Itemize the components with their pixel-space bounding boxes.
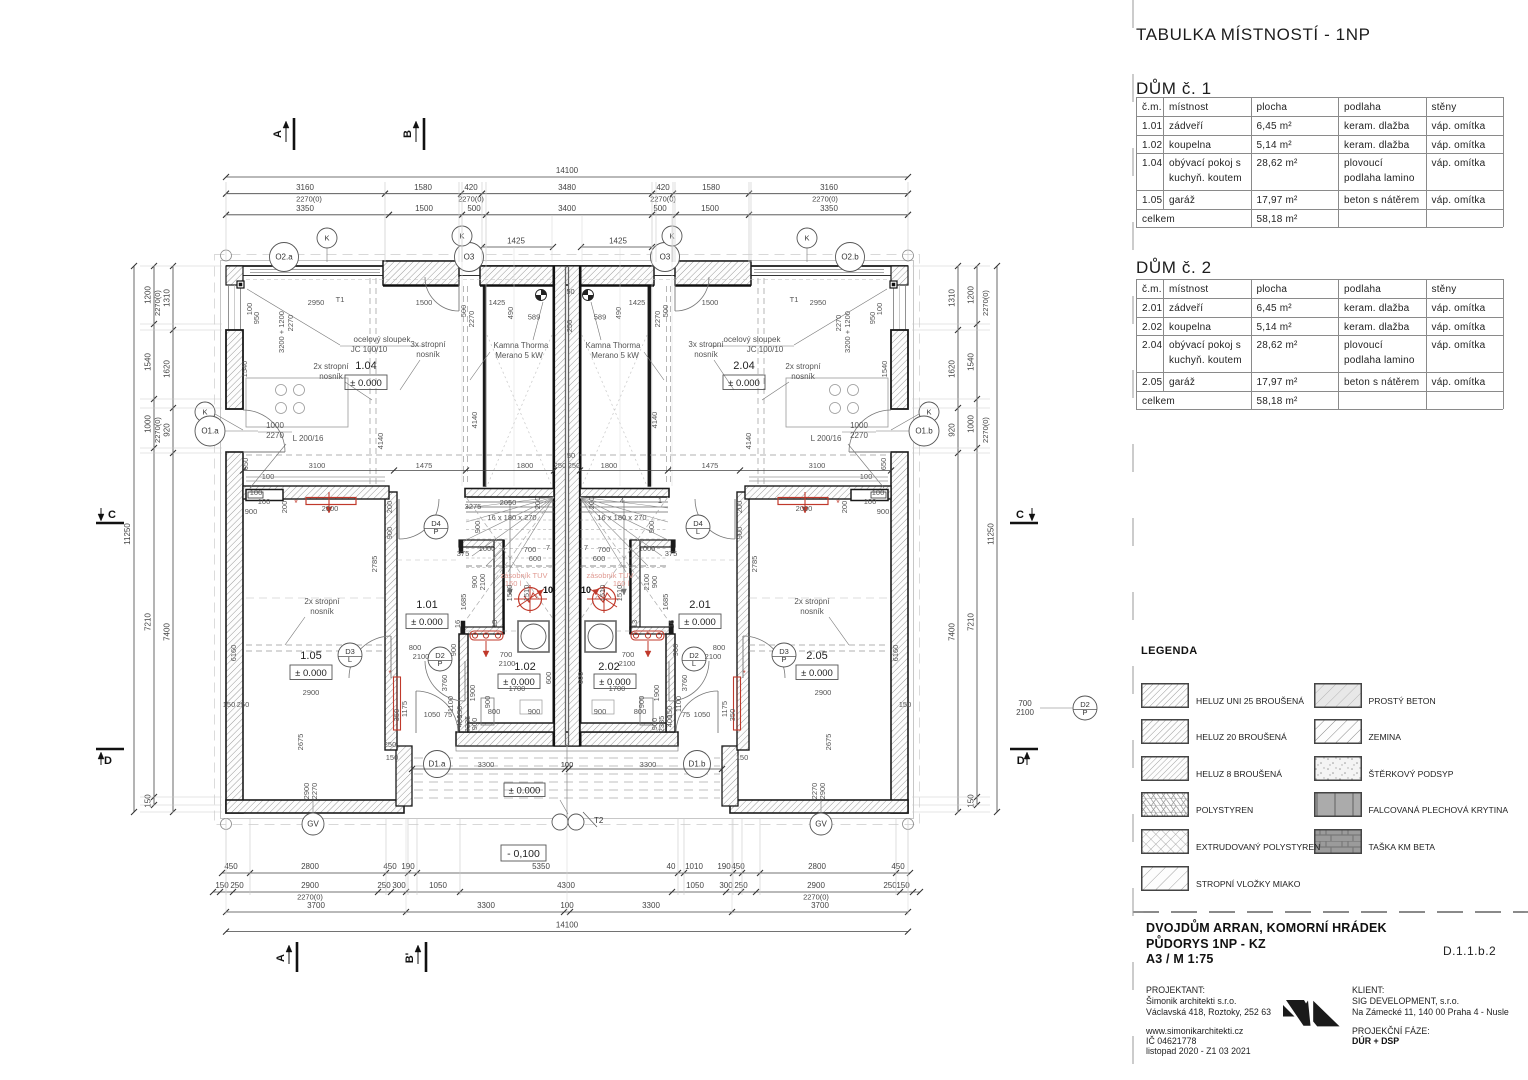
svg-text:1: 1 [658, 496, 662, 505]
door O1.b side entrance right [849, 410, 891, 452]
svg-text:2950: 2950 [810, 298, 827, 307]
svg-text:200: 200 [840, 501, 849, 514]
door D2 left [425, 661, 465, 701]
svg-text:600: 600 [529, 554, 542, 563]
room label 1.01 [406, 599, 448, 629]
svg-text:300: 300 [719, 881, 733, 890]
svg-text:920: 920 [948, 423, 957, 437]
dimension chain left inner [163, 263, 177, 815]
svg-text:420: 420 [464, 183, 478, 192]
svg-text:2.01: 2.01 [689, 599, 710, 611]
exterior contour line around house [215, 255, 920, 825]
label 3x stropni nosnik right [688, 340, 734, 390]
door D3 garage right [743, 636, 785, 678]
svg-text:2270(0): 2270(0) [650, 195, 676, 204]
svg-text:± 0.000: ± 0.000 [684, 617, 716, 628]
svg-text:3160: 3160 [296, 183, 314, 192]
svg-text:589: 589 [528, 313, 541, 322]
svg-text:250: 250 [384, 740, 397, 749]
svg-text:16 x 180 x 270: 16 x 180 x 270 [597, 513, 646, 522]
svg-text:450: 450 [731, 862, 745, 871]
svg-text:2270(0): 2270(0) [812, 195, 838, 204]
svg-text:900: 900 [473, 521, 482, 534]
label kamna thorma right [586, 302, 665, 380]
section marker A bottom [275, 942, 297, 972]
svg-text:2900: 2900 [807, 881, 825, 890]
svg-text:4140: 4140 [744, 433, 753, 450]
kitchen counter left unit [246, 378, 348, 427]
svg-text:1510: 1510 [615, 585, 624, 602]
svg-text:7400: 7400 [163, 623, 172, 641]
svg-text:2800: 2800 [808, 862, 826, 871]
svg-text:2270: 2270 [266, 431, 284, 440]
svg-text:1580: 1580 [702, 183, 720, 192]
label 1000 2270 left [258, 421, 292, 440]
svg-text:Merano 5 kW: Merano 5 kW [495, 351, 543, 360]
legend swatch PROSTÝ BETON [1314, 683, 1362, 708]
svg-text:150: 150 [899, 700, 912, 709]
svg-text:1500: 1500 [415, 204, 433, 213]
svg-text:1800: 1800 [517, 461, 534, 470]
svg-text:500: 500 [467, 204, 481, 213]
svg-text:1700: 1700 [609, 684, 626, 693]
svg-text:- 0,100: - 0,100 [507, 848, 540, 860]
red fitting bathroom right [631, 631, 664, 657]
svg-text:2675: 2675 [296, 734, 305, 751]
ceiling beam dashed lines living rooms [246, 278, 888, 486]
svg-text:1900: 1900 [468, 685, 477, 702]
gas meter bubble GV left [302, 800, 324, 835]
svg-text:7400: 7400 [948, 623, 957, 641]
svg-text:D1.a: D1.a [429, 760, 446, 769]
legend swatch STROPNÍ VLOŽKY MIAKO [1141, 866, 1189, 891]
svg-text:1540: 1540 [144, 353, 153, 371]
door bubble D2 left [428, 647, 452, 671]
svg-text:250: 250 [568, 461, 581, 470]
svg-text:1475: 1475 [702, 461, 719, 470]
window bubble O1.b [876, 416, 939, 446]
svg-text:3300: 3300 [478, 760, 495, 769]
svg-text:490: 490 [506, 307, 515, 320]
svg-text:JC 100/10: JC 100/10 [351, 345, 388, 354]
wall chimney bump-out left [383, 261, 459, 285]
architect logo [1281, 998, 1343, 1030]
svg-text:14100: 14100 [556, 921, 579, 930]
legend heading [1141, 645, 1198, 657]
dimension chain bottom row 3 [223, 901, 911, 915]
svg-text:4: 4 [620, 496, 624, 505]
svg-text:3300: 3300 [477, 901, 495, 910]
klempir bubble K top-mid-left [452, 226, 472, 262]
svg-text:16: 16 [453, 620, 462, 628]
svg-text:2100: 2100 [642, 574, 651, 591]
door D2 right [669, 661, 709, 701]
svg-text:± 0.000: ± 0.000 [411, 617, 443, 628]
svg-text:2675: 2675 [824, 734, 833, 751]
wall top centre thick segment [480, 266, 654, 285]
dimension texts interior right unit [561, 295, 912, 799]
svg-text:13: 13 [630, 620, 639, 628]
wall garage inner left [385, 492, 397, 750]
svg-text:2270: 2270 [286, 315, 295, 332]
svg-text:490: 490 [614, 307, 623, 320]
svg-text:950: 950 [252, 312, 261, 325]
svg-text:2x stropní: 2x stropní [794, 597, 830, 606]
svg-text:600: 600 [576, 672, 585, 685]
svg-text:3275: 3275 [465, 502, 482, 511]
svg-text:900: 900 [735, 527, 744, 540]
svg-text:Merano 5 kW: Merano 5 kW [591, 351, 639, 360]
svg-text:1000: 1000 [479, 544, 496, 553]
svg-text:350: 350 [728, 709, 737, 722]
svg-text:1310: 1310 [948, 289, 957, 307]
sheet fold dashed border left of panel [1132, 0, 1134, 1080]
sheet fold dashed separator above title block [1133, 911, 1528, 913]
svg-text:7: 7 [546, 543, 550, 552]
svg-text:1700: 1700 [509, 684, 526, 693]
gas meter bubble GV right [810, 800, 832, 835]
svg-text:2785: 2785 [370, 556, 379, 573]
svg-text:3700: 3700 [811, 901, 829, 910]
svg-text:2270: 2270 [834, 315, 843, 332]
stairwell void dashed diagonals left [487, 335, 552, 486]
hall dashed lines [397, 560, 737, 631]
washing machine left unit [518, 621, 549, 652]
svg-text:2100: 2100 [478, 574, 487, 591]
window bubble O2.a [270, 243, 299, 272]
svg-text:nosník: nosník [800, 607, 825, 616]
svg-text:375: 375 [665, 549, 678, 558]
svg-text:2.02: 2.02 [598, 661, 619, 673]
table title TABULKA MISTNOSTI [1136, 25, 1371, 45]
svg-text:1050: 1050 [429, 881, 447, 890]
svg-text:200: 200 [587, 497, 596, 510]
svg-text:1000: 1000 [850, 421, 868, 430]
svg-text:10: 10 [581, 585, 591, 595]
klempir bubble K left wall [195, 402, 243, 430]
svg-text:3300: 3300 [640, 760, 657, 769]
wall outer right upper window zone [894, 285, 906, 330]
svg-text:1000: 1000 [266, 421, 284, 430]
svg-text:2100: 2100 [413, 652, 430, 661]
svg-text:1000: 1000 [144, 415, 153, 433]
staircase right unit [580, 497, 668, 620]
svg-text:2270(0): 2270(0) [296, 195, 322, 204]
door bubble D4 right [686, 515, 710, 539]
svg-text:900: 900 [650, 576, 659, 589]
room label 2.01 [679, 599, 721, 629]
klempir bubble K top-mid-right [662, 226, 682, 262]
wall shaft niche right unit [630, 540, 675, 634]
dimension line interior upper left unit [240, 468, 557, 474]
room label 1.04 [345, 360, 387, 390]
svg-text:± 0.000: ± 0.000 [509, 786, 541, 797]
svg-text:1620: 1620 [948, 360, 957, 378]
svg-text:2x stropní: 2x stropní [313, 362, 349, 371]
door T1 left [425, 277, 459, 311]
svg-text:B: B [402, 130, 414, 138]
svg-text:250: 250 [734, 881, 748, 890]
section marker B top [402, 118, 424, 150]
legend swatch HELUZ UNI 25 BROUŠENÁ [1141, 683, 1189, 708]
svg-text:150: 150 [223, 700, 236, 709]
wall chimney bump-out right [675, 261, 751, 285]
stove symbol left unit [536, 290, 547, 301]
legend swatch EXTRUDOVANÝ POLYSTYREN [1141, 829, 1189, 854]
svg-text:1500: 1500 [416, 298, 433, 307]
svg-text:4300: 4300 [557, 881, 575, 890]
room label 2.04 [723, 360, 765, 390]
svg-text:1800: 1800 [601, 461, 618, 470]
svg-text:2270(0): 2270(0) [153, 417, 162, 443]
svg-text:GV: GV [307, 820, 319, 829]
steel column symbol top-right [890, 281, 897, 288]
label L 200/16 left [250, 434, 324, 488]
svg-text:2100: 2100 [499, 659, 516, 668]
label 2x stropni nosnik living right [762, 362, 821, 400]
stairwell void dashed diagonals right [582, 335, 647, 486]
svg-text:150: 150 [215, 881, 229, 890]
door bubble D2 far right [1016, 696, 1097, 720]
room table house 1 [1135, 96, 1137, 98]
svg-text:nosník: nosník [319, 372, 344, 381]
lintel lines above mid wall right [749, 477, 888, 481]
svg-text:11250: 11250 [987, 523, 996, 545]
svg-text:JC 100/10: JC 100/10 [747, 345, 784, 354]
svg-text:2270: 2270 [653, 311, 662, 328]
svg-text:O3: O3 [464, 253, 475, 262]
door O1.a side entrance left [243, 410, 285, 452]
svg-text:3760: 3760 [680, 675, 689, 692]
svg-text:2270: 2270 [310, 783, 319, 800]
svg-text:3100: 3100 [309, 461, 326, 470]
svg-text:T2: T2 [594, 816, 604, 825]
wall garage leg left [396, 746, 412, 806]
svg-text:1050: 1050 [424, 710, 441, 719]
room table house 2 [1135, 278, 1137, 280]
red vertical duct right [734, 669, 746, 730]
door D4 left [399, 499, 439, 539]
svg-text:nosník: nosník [791, 372, 816, 381]
svg-text:2270: 2270 [850, 431, 868, 440]
svg-text:1.04: 1.04 [355, 360, 376, 372]
dimension line interior upper right unit [577, 468, 894, 474]
svg-text:100: 100 [860, 472, 873, 481]
svg-text:75: 75 [444, 710, 452, 719]
svg-text:1510: 1510 [505, 585, 514, 602]
svg-text:900: 900 [245, 507, 258, 516]
svg-text:2900: 2900 [818, 783, 827, 800]
svg-text:800: 800 [713, 643, 726, 652]
red water heater right (zasobnik TUV) [581, 571, 633, 613]
window bubble O1.a [195, 416, 258, 446]
room label 2.05 [796, 650, 838, 680]
svg-text:1050: 1050 [694, 710, 711, 719]
svg-text:16 x 180 x 270: 16 x 180 x 270 [487, 513, 536, 522]
svg-text:7210: 7210 [967, 613, 976, 631]
svg-text:1050: 1050 [686, 881, 704, 890]
svg-text:L 200/16: L 200/16 [293, 434, 324, 443]
label 2x stropni nosnik garage right [794, 597, 849, 645]
porch paving dashed lines [414, 746, 720, 818]
wall centre party double [554, 266, 580, 746]
witness lines to top dimension chains [226, 182, 908, 262]
wall pier right (window jamb) [891, 330, 908, 409]
legend swatch HELUZ 20 BROUŠENÁ [1141, 719, 1189, 744]
section marker A top [272, 118, 294, 150]
svg-text:100: 100 [262, 472, 275, 481]
svg-text:700: 700 [598, 545, 611, 554]
svg-text:600: 600 [544, 672, 553, 685]
red garage lintel left [294, 492, 356, 513]
title block project name [1146, 921, 1387, 935]
dimension chain top overall 14100 [223, 166, 911, 180]
door bubble D3 left [338, 643, 362, 667]
svg-text:250: 250 [883, 881, 897, 890]
svg-text:2050: 2050 [500, 498, 517, 507]
door T1 right [675, 277, 709, 311]
projektant block [1146, 985, 1205, 995]
svg-text:2270(0): 2270(0) [153, 290, 162, 316]
svg-text:3350: 3350 [820, 204, 838, 213]
label ocelovy sloupek right [710, 289, 887, 354]
svg-text:500: 500 [653, 204, 667, 213]
dimension chain bottom row 1 [219, 862, 913, 876]
svg-text:900: 900 [650, 718, 659, 731]
axis corner circles [221, 250, 914, 830]
section marker D left [96, 749, 124, 767]
legend swatch FALCOVANÁ PLECHOVÁ KRYTINA [1314, 792, 1362, 817]
svg-text:O3: O3 [660, 253, 671, 262]
svg-text:1000: 1000 [639, 544, 656, 553]
svg-text:300: 300 [392, 881, 406, 890]
svg-text:150: 150 [386, 753, 399, 762]
wall pier top-left corner [226, 266, 243, 285]
section marker B bottom [404, 942, 426, 972]
svg-text:900: 900 [877, 507, 890, 516]
dimension chain left outer 11250 [123, 263, 137, 815]
svg-text:2270(0): 2270(0) [981, 417, 990, 443]
svg-text:A: A [272, 130, 284, 138]
door bubble D1.b [684, 751, 711, 778]
lintel lines above mid wall left [246, 477, 385, 481]
svg-text:50: 50 [567, 451, 575, 460]
svg-text:100: 100 [560, 901, 574, 910]
svg-text:100: 100 [872, 488, 885, 497]
svg-text:C: C [1016, 509, 1024, 521]
svg-text:1200: 1200 [967, 286, 976, 304]
svg-text:O1.b: O1.b [915, 427, 933, 436]
room label 1.05 [290, 650, 332, 680]
window bubble O2.b [836, 243, 865, 272]
svg-text:3200 + 1200: 3200 + 1200 [277, 311, 286, 353]
svg-text:1.05: 1.05 [300, 650, 321, 662]
svg-text:O1.a: O1.a [201, 427, 219, 436]
wall stair stub right [580, 489, 669, 498]
svg-text:250: 250 [377, 881, 391, 890]
wall outer bottom right garage [730, 800, 908, 813]
svg-text:2.04: 2.04 [733, 360, 754, 372]
wall bathroom right unit [580, 634, 675, 732]
svg-text:900: 900 [470, 718, 479, 731]
svg-text:75: 75 [682, 710, 690, 719]
svg-text:450: 450 [383, 862, 397, 871]
svg-text:1425: 1425 [609, 237, 627, 246]
svg-text:14100: 14100 [556, 166, 579, 175]
svg-text:K: K [324, 234, 329, 243]
label ocelovy sloupek left [247, 289, 424, 354]
svg-text:3400: 3400 [558, 204, 576, 213]
svg-text:1620: 1620 [163, 360, 172, 378]
svg-text:6160: 6160 [891, 645, 900, 662]
svg-text:GV: GV [815, 820, 827, 829]
svg-text:1540: 1540 [240, 361, 249, 378]
wall garage leg right [722, 746, 738, 806]
label kamna thorma left [470, 302, 549, 380]
svg-text:100: 100 [864, 497, 877, 506]
wall middle horizontal right unit [745, 486, 891, 501]
dimension chain right inner [948, 263, 962, 815]
dimension chain right outer 11250 [987, 263, 1001, 815]
svg-text:1425: 1425 [507, 237, 525, 246]
svg-text:4140: 4140 [376, 433, 385, 450]
wall outer bottom left garage [226, 800, 404, 813]
klempir bubble K right wall [891, 402, 939, 430]
svg-text:5350: 5350 [532, 862, 550, 871]
svg-text:900: 900 [385, 527, 394, 540]
svg-text:3760: 3760 [440, 675, 449, 692]
wall pier top-right corner [891, 266, 908, 285]
svg-text:250: 250 [565, 320, 574, 333]
svg-text:16: 16 [667, 620, 676, 628]
level label porch [504, 783, 545, 797]
dimension chain right middle [967, 263, 991, 808]
svg-text:900: 900 [528, 707, 541, 716]
svg-text:K: K [202, 408, 207, 417]
table heading DUM c. 1 [1136, 79, 1212, 99]
sink right unit [592, 698, 653, 725]
svg-text:± 0.000: ± 0.000 [801, 668, 833, 679]
svg-text:150: 150 [967, 794, 976, 808]
svg-text:420: 420 [656, 183, 670, 192]
svg-text:1175: 1175 [720, 701, 729, 717]
wall middle horizontal left unit [243, 486, 389, 501]
svg-text:100: 100 [250, 488, 263, 497]
legend swatch TAŠKA KM BETA [1314, 829, 1362, 854]
svg-text:900: 900 [483, 696, 492, 709]
svg-text:1685: 1685 [459, 594, 468, 611]
svg-text:2900: 2900 [815, 688, 832, 697]
svg-text:D: D [104, 755, 112, 767]
svg-text:1425: 1425 [629, 298, 646, 307]
svg-text:3480: 3480 [558, 183, 576, 192]
wall stair bay partition right [580, 286, 751, 487]
stair numbering right unit [584, 496, 662, 552]
washing machine right unit [585, 621, 616, 652]
label 2x stropni nosnik living left [313, 362, 372, 400]
svg-text:2100: 2100 [705, 652, 722, 661]
svg-text:L 200/16: L 200/16 [811, 434, 842, 443]
svg-text:900: 900 [449, 644, 458, 657]
svg-text:450: 450 [891, 862, 905, 871]
witness lines to bottom dimension chains [226, 818, 908, 915]
svg-text:900: 900 [671, 644, 680, 657]
svg-text:150: 150 [736, 753, 749, 762]
wall stair bay partition left [383, 286, 554, 487]
svg-text:2900: 2900 [303, 688, 320, 697]
sink left unit [481, 698, 542, 725]
level label -0,100 [501, 845, 546, 861]
